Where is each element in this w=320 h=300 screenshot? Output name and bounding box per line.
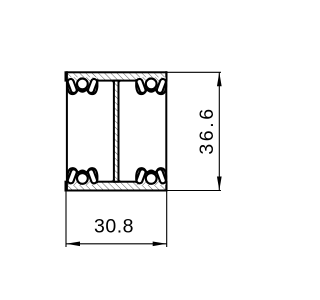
- dimension 36.6 : top extension line: [168, 71, 222, 73]
- right side wall: [165, 71, 167, 191]
- web fillet bottom-left: [112, 179, 114, 182]
- screw boss bottom-left: [67, 168, 97, 185]
- bottom flange (hatched section): [66, 182, 167, 191]
- dimension 30.8 : right extension line: [166, 192, 168, 248]
- central web (hatched section): [114, 81, 119, 182]
- dimension 36.6 : top arrow: [217, 72, 222, 86]
- web fillet bottom-right: [119, 179, 121, 182]
- dimension 30.8 : left arrow: [66, 241, 80, 246]
- dimension 30.8 : left extension line: [65, 192, 67, 248]
- web fillet top-right: [119, 81, 121, 84]
- top flange (hatched section): [66, 72, 167, 80]
- screw boss bottom-right: [136, 168, 166, 185]
- dimension 36.6 : bottom extension line: [168, 190, 222, 192]
- svg-text:36.6: 36.6: [196, 106, 218, 154]
- web fillet top-left: [112, 81, 114, 84]
- left side wall: [66, 71, 68, 191]
- screw boss top-left: [67, 77, 97, 94]
- screw boss top-right: [136, 77, 166, 94]
- dimension 36.6 : bottom arrow: [217, 177, 222, 191]
- dimension 30.8 : right arrow: [153, 241, 167, 246]
- svg-text:30.8: 30.8: [94, 216, 134, 238]
- dimension 30.8 : dimension line: [66, 243, 167, 245]
- dimension 36.6 : dimension line: [218, 72, 220, 190]
